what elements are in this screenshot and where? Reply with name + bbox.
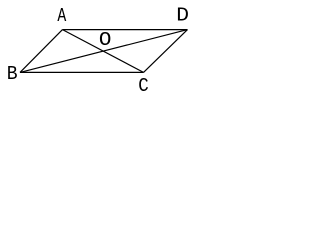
svg-text:C: C xyxy=(138,77,149,98)
svg-text:D: D xyxy=(176,5,189,27)
svg-text:B: B xyxy=(7,64,18,86)
svg-text:A: A xyxy=(57,6,67,27)
svg-text:O: O xyxy=(99,29,112,51)
